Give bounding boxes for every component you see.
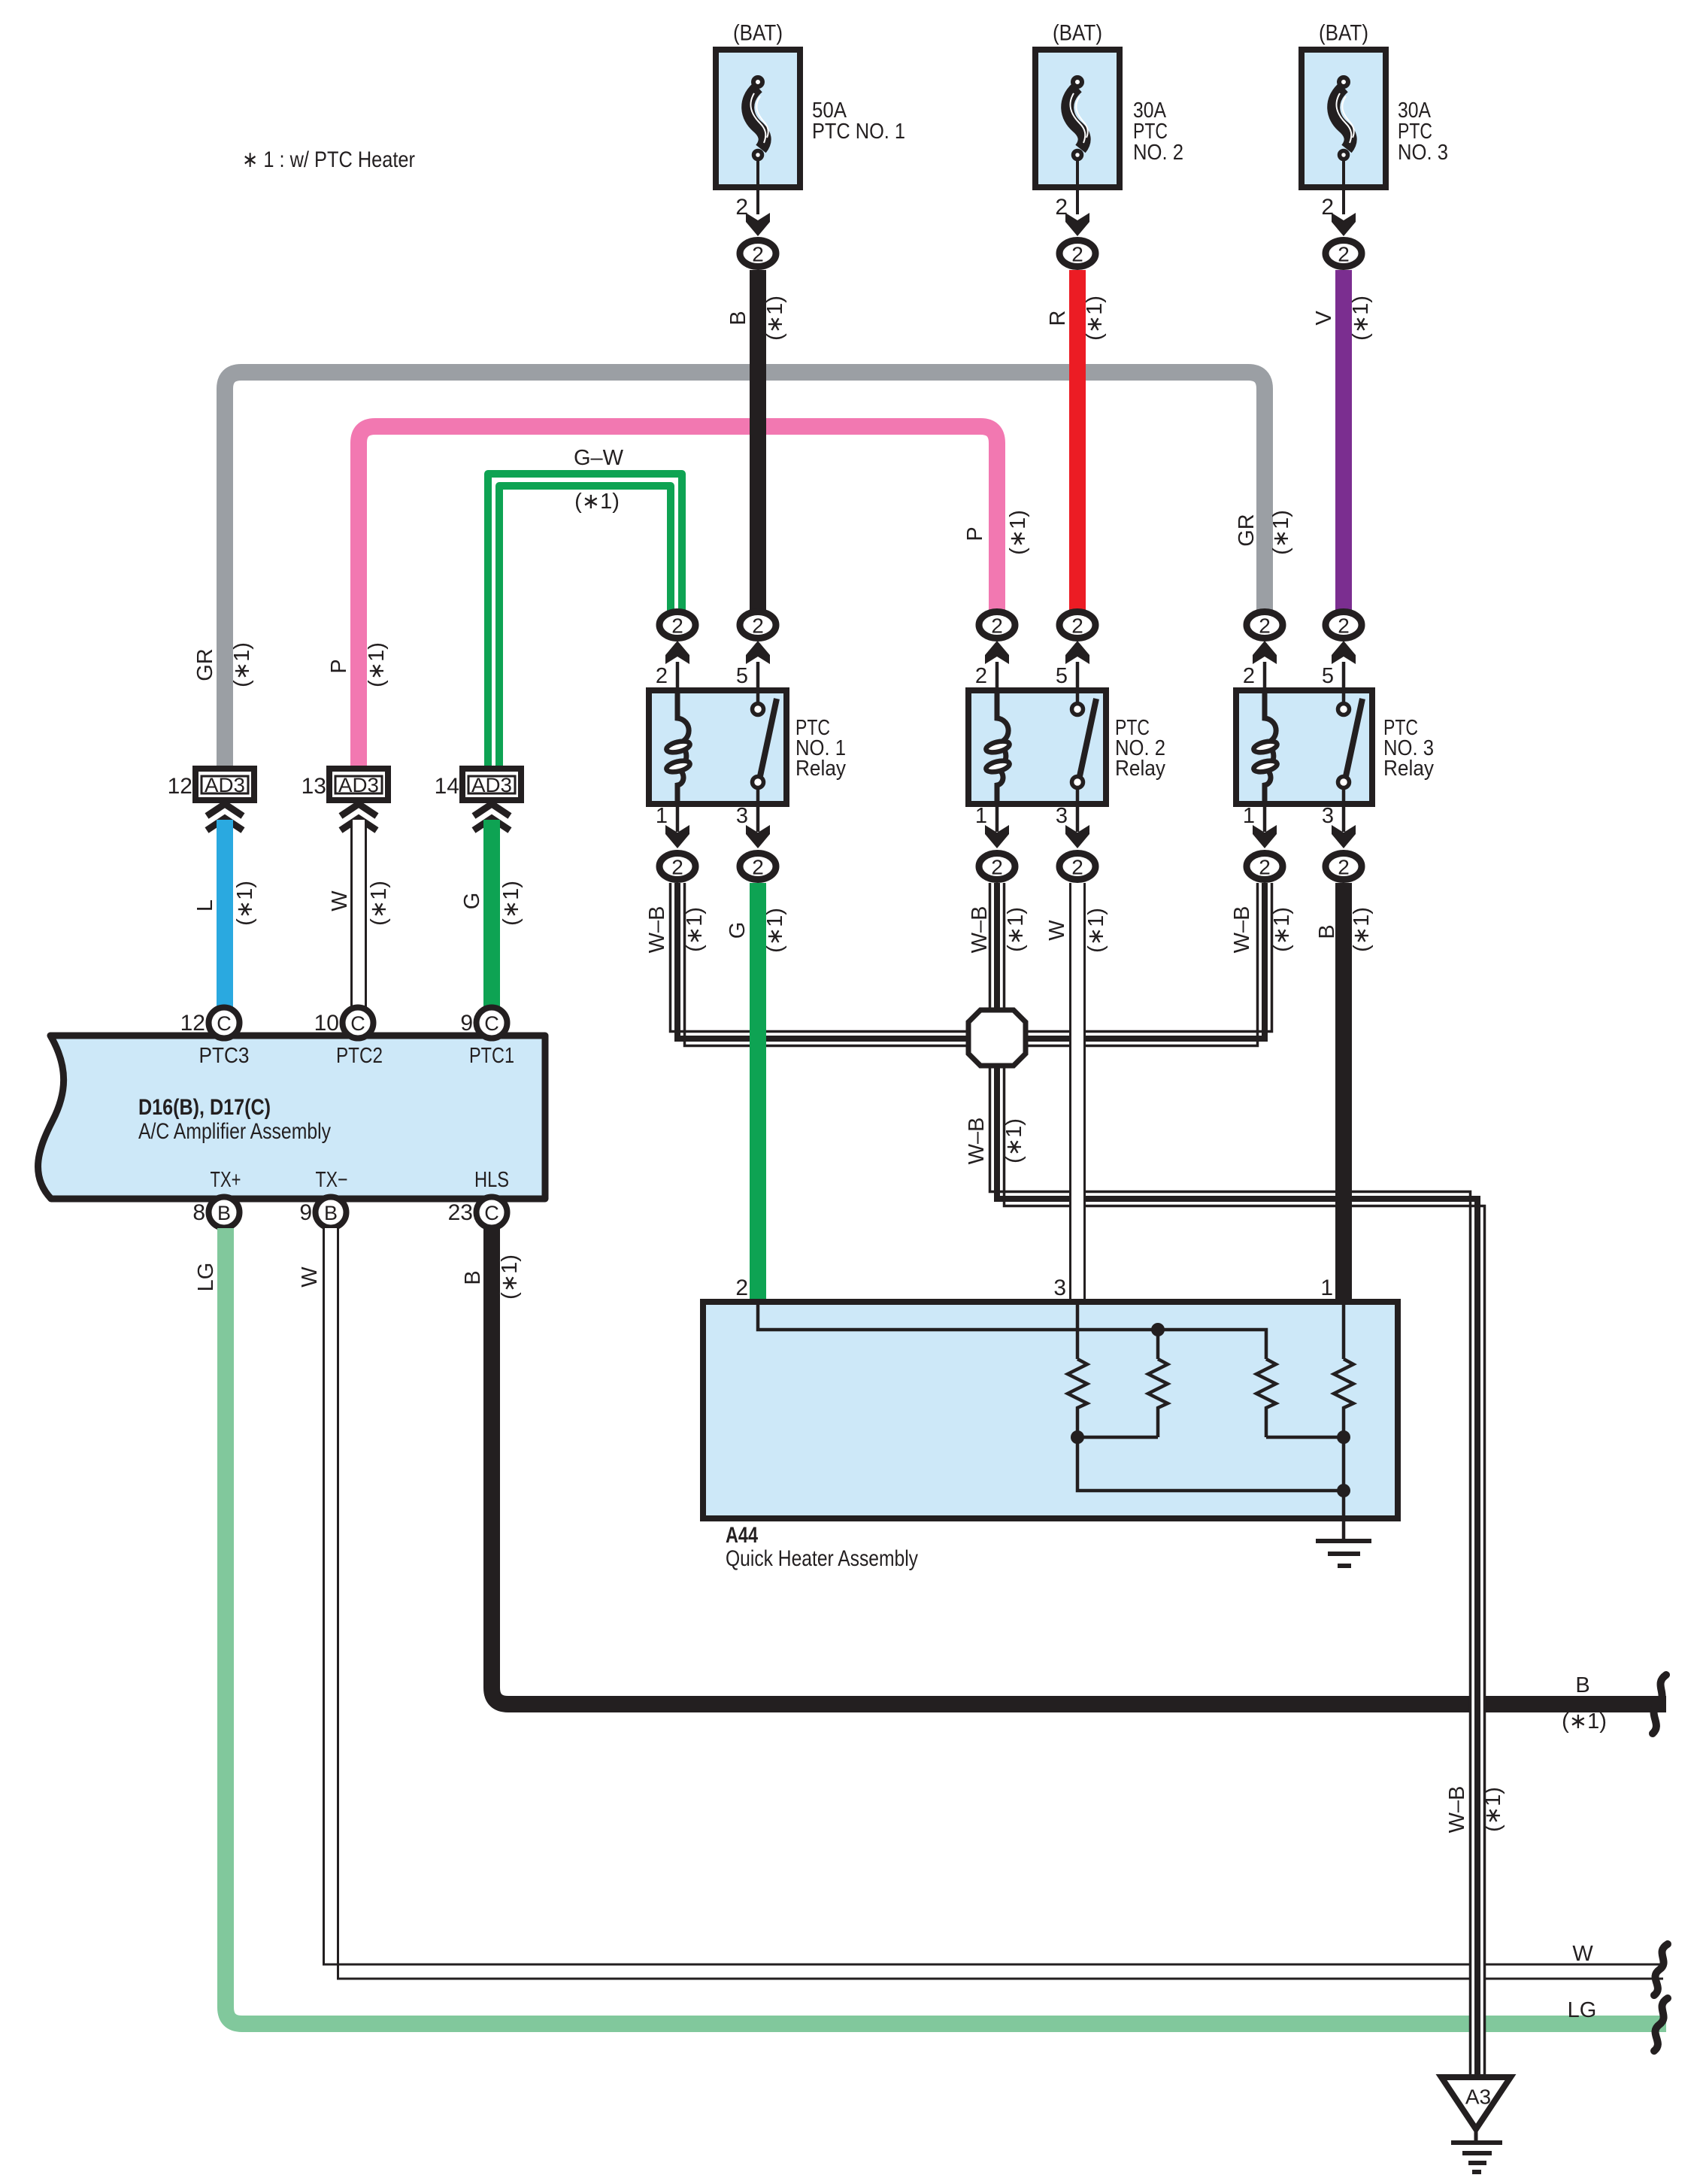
svg-text:(∗1): (∗1) <box>498 1254 522 1300</box>
svg-text:B: B <box>217 1202 231 1224</box>
svg-text:2: 2 <box>991 614 1003 638</box>
svg-text:W: W <box>328 890 352 912</box>
svg-text:PTC3: PTC3 <box>199 1044 250 1068</box>
svg-text:C: C <box>484 1012 499 1035</box>
svg-text:L: L <box>193 899 217 912</box>
svg-text:C: C <box>350 1012 365 1035</box>
svg-text:A3: A3 <box>1465 2085 1491 2109</box>
svg-text:(∗1): (∗1) <box>683 907 707 952</box>
svg-text:(∗1): (∗1) <box>763 296 787 341</box>
svg-text:9: 9 <box>299 1200 312 1225</box>
svg-text:TX+: TX+ <box>211 1168 241 1192</box>
svg-text:D16(B), D17(C): D16(B), D17(C) <box>138 1095 271 1120</box>
svg-text:13: 13 <box>302 774 326 799</box>
svg-text:(∗1): (∗1) <box>1562 1709 1607 1734</box>
svg-text:PTC2: PTC2 <box>336 1044 383 1068</box>
svg-text:W–B: W–B <box>965 1118 989 1165</box>
svg-text:B: B <box>726 311 750 325</box>
svg-text:(∗1): (∗1) <box>1002 1118 1026 1163</box>
svg-text:AD3: AD3 <box>338 774 379 796</box>
svg-text:(∗1): (∗1) <box>233 881 257 926</box>
svg-text:3: 3 <box>1053 1276 1066 1300</box>
svg-text:A44: A44 <box>726 1523 758 1548</box>
svg-text:(∗1): (∗1) <box>1084 908 1108 953</box>
svg-text:10: 10 <box>314 1011 339 1036</box>
svg-text:LG: LG <box>1568 1998 1597 2022</box>
svg-text:V: V <box>1312 311 1336 326</box>
svg-text:5: 5 <box>736 664 748 688</box>
svg-text:3: 3 <box>736 804 748 828</box>
svg-text:Relay: Relay <box>1383 757 1434 781</box>
svg-text:(BAT): (BAT) <box>733 21 783 46</box>
svg-text:2: 2 <box>1338 243 1350 266</box>
svg-text:W: W <box>1572 1942 1593 1966</box>
svg-text:A/C Amplifier Assembly: A/C Amplifier Assembly <box>138 1119 331 1144</box>
svg-text:P: P <box>963 526 987 541</box>
svg-text:W–B: W–B <box>1445 1786 1469 1834</box>
svg-text:2: 2 <box>656 664 668 688</box>
svg-text:2: 2 <box>1071 243 1083 266</box>
svg-text:LG: LG <box>194 1263 218 1292</box>
svg-text:(∗1): (∗1) <box>1481 1787 1505 1832</box>
svg-text:2: 2 <box>1338 856 1350 879</box>
svg-text:2: 2 <box>975 664 987 688</box>
svg-text:(∗1): (∗1) <box>367 881 391 926</box>
svg-text:P: P <box>327 659 351 673</box>
svg-text:HLS: HLS <box>474 1168 509 1192</box>
svg-text:2: 2 <box>1071 614 1083 638</box>
svg-text:R: R <box>1046 311 1070 326</box>
svg-text:Relay: Relay <box>1115 757 1165 781</box>
svg-text:23: 23 <box>448 1200 473 1225</box>
svg-text:W–B: W–B <box>645 906 669 954</box>
svg-text:Relay: Relay <box>795 757 846 781</box>
svg-text:2: 2 <box>1259 614 1271 638</box>
svg-text:2: 2 <box>752 856 764 879</box>
svg-text:9: 9 <box>460 1011 473 1036</box>
svg-text:(∗1): (∗1) <box>365 642 389 687</box>
svg-text:(∗1): (∗1) <box>230 642 254 687</box>
svg-text:AD3: AD3 <box>205 774 245 796</box>
svg-text:2: 2 <box>1071 856 1083 879</box>
svg-text:(∗1): (∗1) <box>1004 907 1028 952</box>
svg-text:C: C <box>484 1202 499 1224</box>
svg-text:NO. 3: NO. 3 <box>1398 141 1448 165</box>
svg-text:2: 2 <box>735 1276 748 1300</box>
svg-text:12: 12 <box>180 1011 205 1036</box>
svg-text:(∗1): (∗1) <box>1083 296 1107 341</box>
svg-text:(∗1): (∗1) <box>1349 296 1373 341</box>
svg-text:W–B: W–B <box>968 906 992 954</box>
svg-text:2: 2 <box>1259 856 1271 879</box>
svg-text:(∗1): (∗1) <box>499 881 523 926</box>
svg-text:1: 1 <box>656 804 668 828</box>
svg-text:TX−: TX− <box>316 1168 348 1192</box>
svg-text:2: 2 <box>671 856 683 879</box>
svg-text:14: 14 <box>435 774 459 799</box>
svg-text:G: G <box>726 922 750 939</box>
svg-text:PTC NO. 1: PTC NO. 1 <box>812 120 905 144</box>
svg-text:1: 1 <box>975 804 987 828</box>
svg-text:NO. 2: NO. 2 <box>1133 141 1183 165</box>
svg-text:2: 2 <box>752 614 764 638</box>
svg-text:8: 8 <box>192 1200 205 1225</box>
svg-text:(∗1): (∗1) <box>1006 510 1030 555</box>
svg-text:G: G <box>460 893 484 910</box>
svg-text:B: B <box>324 1202 338 1224</box>
svg-text:5: 5 <box>1322 664 1334 688</box>
svg-text:(∗1): (∗1) <box>1350 907 1374 952</box>
svg-text:12: 12 <box>168 774 192 799</box>
svg-text:W–B: W–B <box>1230 906 1254 954</box>
svg-text:2: 2 <box>1338 614 1350 638</box>
svg-text:B: B <box>461 1270 485 1285</box>
svg-text:3: 3 <box>1322 804 1334 828</box>
svg-text:PTC1: PTC1 <box>469 1044 514 1068</box>
svg-text:5: 5 <box>1056 664 1068 688</box>
svg-text:(BAT): (BAT) <box>1053 21 1102 46</box>
svg-text:C: C <box>217 1012 232 1035</box>
svg-text:W: W <box>1045 920 1069 941</box>
svg-text:B: B <box>1575 1673 1589 1697</box>
svg-text:2: 2 <box>991 856 1003 879</box>
svg-text:(∗1): (∗1) <box>1270 907 1294 952</box>
svg-text:(∗1): (∗1) <box>763 908 787 953</box>
svg-text:2: 2 <box>752 243 764 266</box>
svg-text:(BAT): (BAT) <box>1319 21 1368 46</box>
svg-text:2: 2 <box>1243 664 1255 688</box>
svg-text:Quick Heater Assembly: Quick Heater Assembly <box>726 1546 918 1571</box>
svg-text:GR: GR <box>193 648 217 681</box>
svg-text:1: 1 <box>1243 804 1255 828</box>
svg-text:GR: GR <box>1235 514 1259 547</box>
svg-text:(∗1): (∗1) <box>574 490 620 514</box>
svg-text:3: 3 <box>1056 804 1068 828</box>
svg-text:(∗1): (∗1) <box>1269 510 1293 555</box>
svg-text:1: 1 <box>1320 1276 1333 1300</box>
svg-text:G–W: G–W <box>574 446 624 470</box>
svg-text:2: 2 <box>671 614 683 638</box>
svg-text:∗ 1 : w/ PTC Heater: ∗ 1 : w/ PTC Heater <box>242 147 415 172</box>
svg-text:AD3: AD3 <box>471 774 512 796</box>
svg-text:W: W <box>298 1266 322 1288</box>
